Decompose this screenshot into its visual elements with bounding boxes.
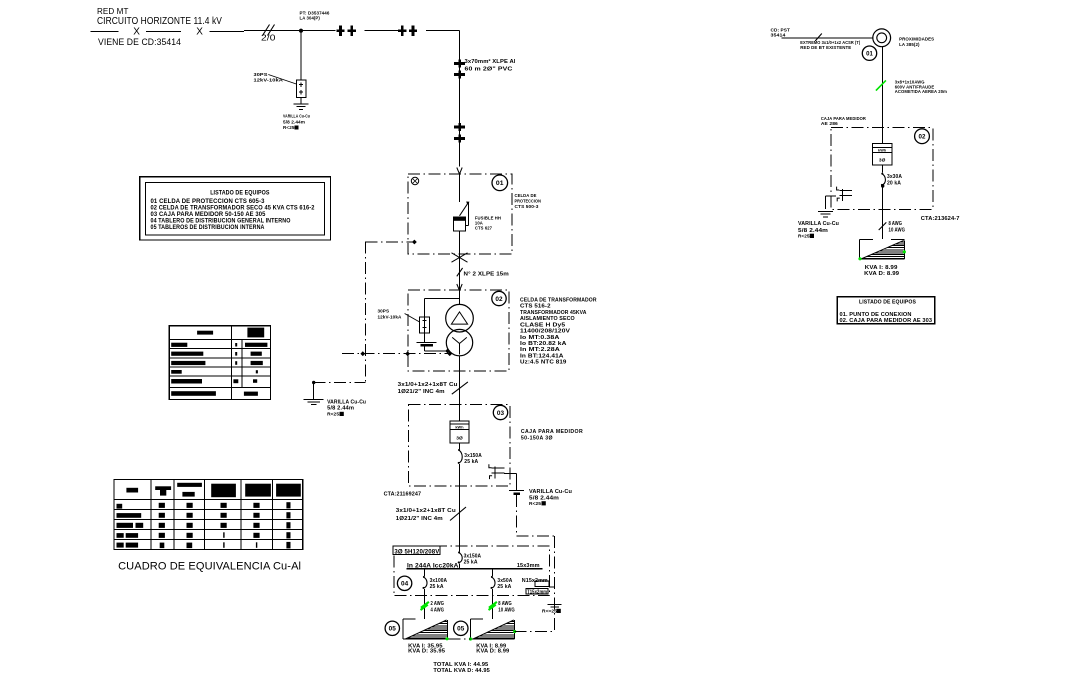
svg-text:kWh: kWh [878,149,887,153]
svg-text:X: X [133,27,140,38]
svg-text:VARILLA Cu-Cu: VARILLA Cu-Cu [798,221,839,227]
svg-text:05: 05 [389,626,397,633]
svg-text:01 CELDA DE PROTECCION CTS 605: 01 CELDA DE PROTECCION CTS 605-3 [151,199,266,205]
svg-text:01: 01 [866,51,873,57]
svg-text:30PS: 30PS [378,309,390,314]
svg-text:1Ø21/2" INC 4m: 1Ø21/2" INC 4m [398,389,445,395]
svg-text:04 TABLERO DE DISTRIBUCION GEN: 04 TABLERO DE DISTRIBUCION GENERAL INTER… [151,219,291,225]
svg-text:LISTADO DE EQUIPOS: LISTADO DE EQUIPOS [210,190,269,197]
svg-text:R<=25: R<=25 [542,609,557,615]
svg-text:VARILLA Cu-Cu: VARILLA Cu-Cu [529,489,572,495]
svg-text:05 TABLEROS DE DISTRIBUCION IN: 05 TABLEROS DE DISTRIBUCION INTERNA [151,225,266,231]
svg-text:Io BT:20.82 kA: Io BT:20.82 kA [520,341,567,347]
svg-text:8 AWG: 8 AWG [889,221,903,227]
svg-text:3Ø: 3Ø [879,158,886,164]
svg-text:03: 03 [497,410,505,417]
svg-text:5/8 2.44m: 5/8 2.44m [327,406,355,412]
svg-text:25 kA: 25 kA [464,459,478,465]
svg-text:30PS: 30PS [254,72,268,77]
svg-text:50-150A 3Ø: 50-150A 3Ø [521,436,553,442]
svg-text:15x3mm: 15x3mm [517,563,540,569]
svg-text:5/8 2.44m: 5/8 2.44m [529,496,559,502]
svg-text:02 CELDA DE TRANSFORMADOR SECO: 02 CELDA DE TRANSFORMADOR SECO 45 KVA CT… [151,206,316,212]
svg-text:KVA D: 35.95: KVA D: 35.95 [408,649,445,655]
svg-text:4 AWG: 4 AWG [431,607,445,613]
svg-text:CTS 627: CTS 627 [475,226,493,231]
svg-text:kWh: kWh [455,426,464,430]
svg-text:05: 05 [457,626,465,633]
svg-text:35414: 35414 [771,32,787,37]
svg-text:TRANSFORMADOR 45KVA: TRANSFORMADOR 45KVA [520,310,587,316]
svg-text:25 kA: 25 kA [464,559,478,565]
svg-text:PROTECCION: PROTECCION [515,199,542,204]
svg-text:03 CAJA PARA MEDIDOR 50-150 AE: 03 CAJA PARA MEDIDOR 50-150 AE 305 [151,212,267,218]
svg-text:02: 02 [495,296,503,303]
svg-text:02: 02 [918,133,926,140]
svg-text:X: X [196,27,203,38]
svg-text:CIRCUITO HORIZONTE 11.4 kV: CIRCUITO HORIZONTE 11.4 kV [97,16,222,27]
svg-text:CTA:213624-7: CTA:213624-7 [921,216,960,222]
svg-text:VARILLA Cu-Cu: VARILLA Cu-Cu [283,114,310,119]
svg-text:RED MT: RED MT [97,7,129,16]
svg-text:01: 01 [496,180,504,187]
svg-text:AE 286: AE 286 [821,121,838,126]
svg-text:25 kA: 25 kA [430,584,444,590]
svg-text:10 AWG: 10 AWG [498,607,515,613]
svg-text:VIENE DE CD:35414: VIENE DE CD:35414 [98,37,181,47]
svg-text:3Ø: 3Ø [456,436,463,442]
svg-text:CTS 516-2: CTS 516-2 [520,304,551,310]
svg-text:RED DE BT EXISTENTE: RED DE BT EXISTENTE [800,45,851,50]
svg-text:R<25: R<25 [798,234,810,239]
svg-text:CAJA PARA MEDIDOR: CAJA PARA MEDIDOR [521,429,583,435]
svg-text:R<25: R<25 [529,501,541,507]
svg-text:3x70mm² XLPE Al: 3x70mm² XLPE Al [465,59,516,65]
svg-text:3x30A: 3x30A [887,174,902,180]
svg-text:CTS 500-3: CTS 500-3 [515,204,539,209]
svg-text:25 kA: 25 kA [497,584,511,590]
svg-text:Uz:4.5 NTC 819: Uz:4.5 NTC 819 [520,360,567,366]
svg-text:12kV-10kA: 12kV-10kA [378,315,402,320]
svg-text:LISTADO DE EQUIPOS: LISTADO DE EQUIPOS [859,300,916,306]
svg-text:CELDA DE: CELDA DE [515,193,537,198]
svg-text:Io MT:0.38A: Io MT:0.38A [520,335,560,341]
svg-text:N° 2 XLPE 15m: N° 2 XLPE 15m [464,271,509,277]
svg-text:T15x2mm: T15x2mm [527,589,547,595]
svg-text:LA 304(P): LA 304(P) [300,16,321,21]
svg-text:In 244A Icc20kA: In 244A Icc20kA [407,562,459,569]
svg-text:04: 04 [401,581,409,588]
svg-text:2/0: 2/0 [261,33,276,43]
svg-text:3x1/0+1x2+1x8T Cu: 3x1/0+1x2+1x8T Cu [398,382,458,388]
svg-text:TOTAL KVA D: 44.95: TOTAL KVA D: 44.95 [433,668,490,674]
svg-text:10 AWG: 10 AWG [889,227,906,233]
svg-text:R<25: R<25 [327,412,339,418]
svg-text:CELDA DE TRANSFORMADOR: CELDA DE TRANSFORMADOR [520,297,597,303]
svg-text:KVA D: 8.99: KVA D: 8.99 [476,649,509,655]
svg-text:ACOMETIDA AEREA 20m: ACOMETIDA AEREA 20m [895,89,947,94]
svg-text:KVA D: 8.99: KVA D: 8.99 [864,271,899,277]
svg-text:60 m 2Ø" PVC: 60 m 2Ø" PVC [465,66,513,72]
svg-text:PROXIMIDADES: PROXIMIDADES [899,37,934,42]
svg-text:8 AWG: 8 AWG [498,601,512,607]
svg-text:CUADRO DE EQUIVALENCIA Cu-Al: CUADRO DE EQUIVALENCIA Cu-Al [118,561,301,573]
svg-text:CTA:21169247: CTA:21169247 [384,492,422,498]
svg-text:R<25: R<25 [283,125,295,130]
svg-text:3Ø 5H120/208V: 3Ø 5H120/208V [394,548,440,555]
svg-text:1Ø21/2" INC 4m: 1Ø21/2" INC 4m [396,516,443,522]
svg-text:In BT:124.41A: In BT:124.41A [520,353,564,359]
svg-text:AISLAMIENTO SECO: AISLAMIENTO SECO [520,316,575,322]
svg-text:LA 385(2): LA 385(2) [899,42,920,47]
svg-text:20 kA: 20 kA [887,180,901,186]
svg-text:11400/208/120V: 11400/208/120V [520,329,571,335]
svg-text:3x1/0+1x2+1x8T Cu: 3x1/0+1x2+1x8T Cu [396,508,456,514]
svg-text:5/8 2.44m: 5/8 2.44m [283,120,305,125]
svg-text:CLASE H Dy5: CLASE H Dy5 [520,322,565,328]
svg-text:02. CAJA PARA MEDIDOR AE 303: 02. CAJA PARA MEDIDOR AE 303 [840,318,933,324]
svg-text:2 AWG: 2 AWG [431,601,445,607]
svg-text:In MT:2.28A: In MT:2.28A [520,347,560,353]
